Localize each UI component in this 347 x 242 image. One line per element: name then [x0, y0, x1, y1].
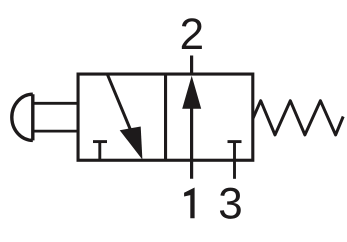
- port 2 line: [190, 56, 193, 76]
- exhaust arrow shaft (diagonal, left square): [107, 74, 136, 143]
- push button stem bottom: [33, 130, 78, 133]
- return spring: [253, 101, 343, 135]
- port 1 line / flow arrow stem: [190, 106, 193, 179]
- exhaust arrow head: [120, 127, 143, 160]
- blocked port T (left square): [93, 142, 107, 161]
- port label 1: [184, 188, 195, 219]
- port label 3: [220, 188, 241, 219]
- blocked port T (right square) / port 3 line: [228, 142, 242, 179]
- push button stem top: [33, 102, 78, 105]
- valve body outline (two-position envelope): [78, 74, 253, 160]
- position divider line: [164, 74, 167, 160]
- flow arrow head (1 to 2): [182, 76, 201, 109]
- push button actuator head: [12, 94, 33, 140]
- port label 2: [182, 18, 202, 49]
